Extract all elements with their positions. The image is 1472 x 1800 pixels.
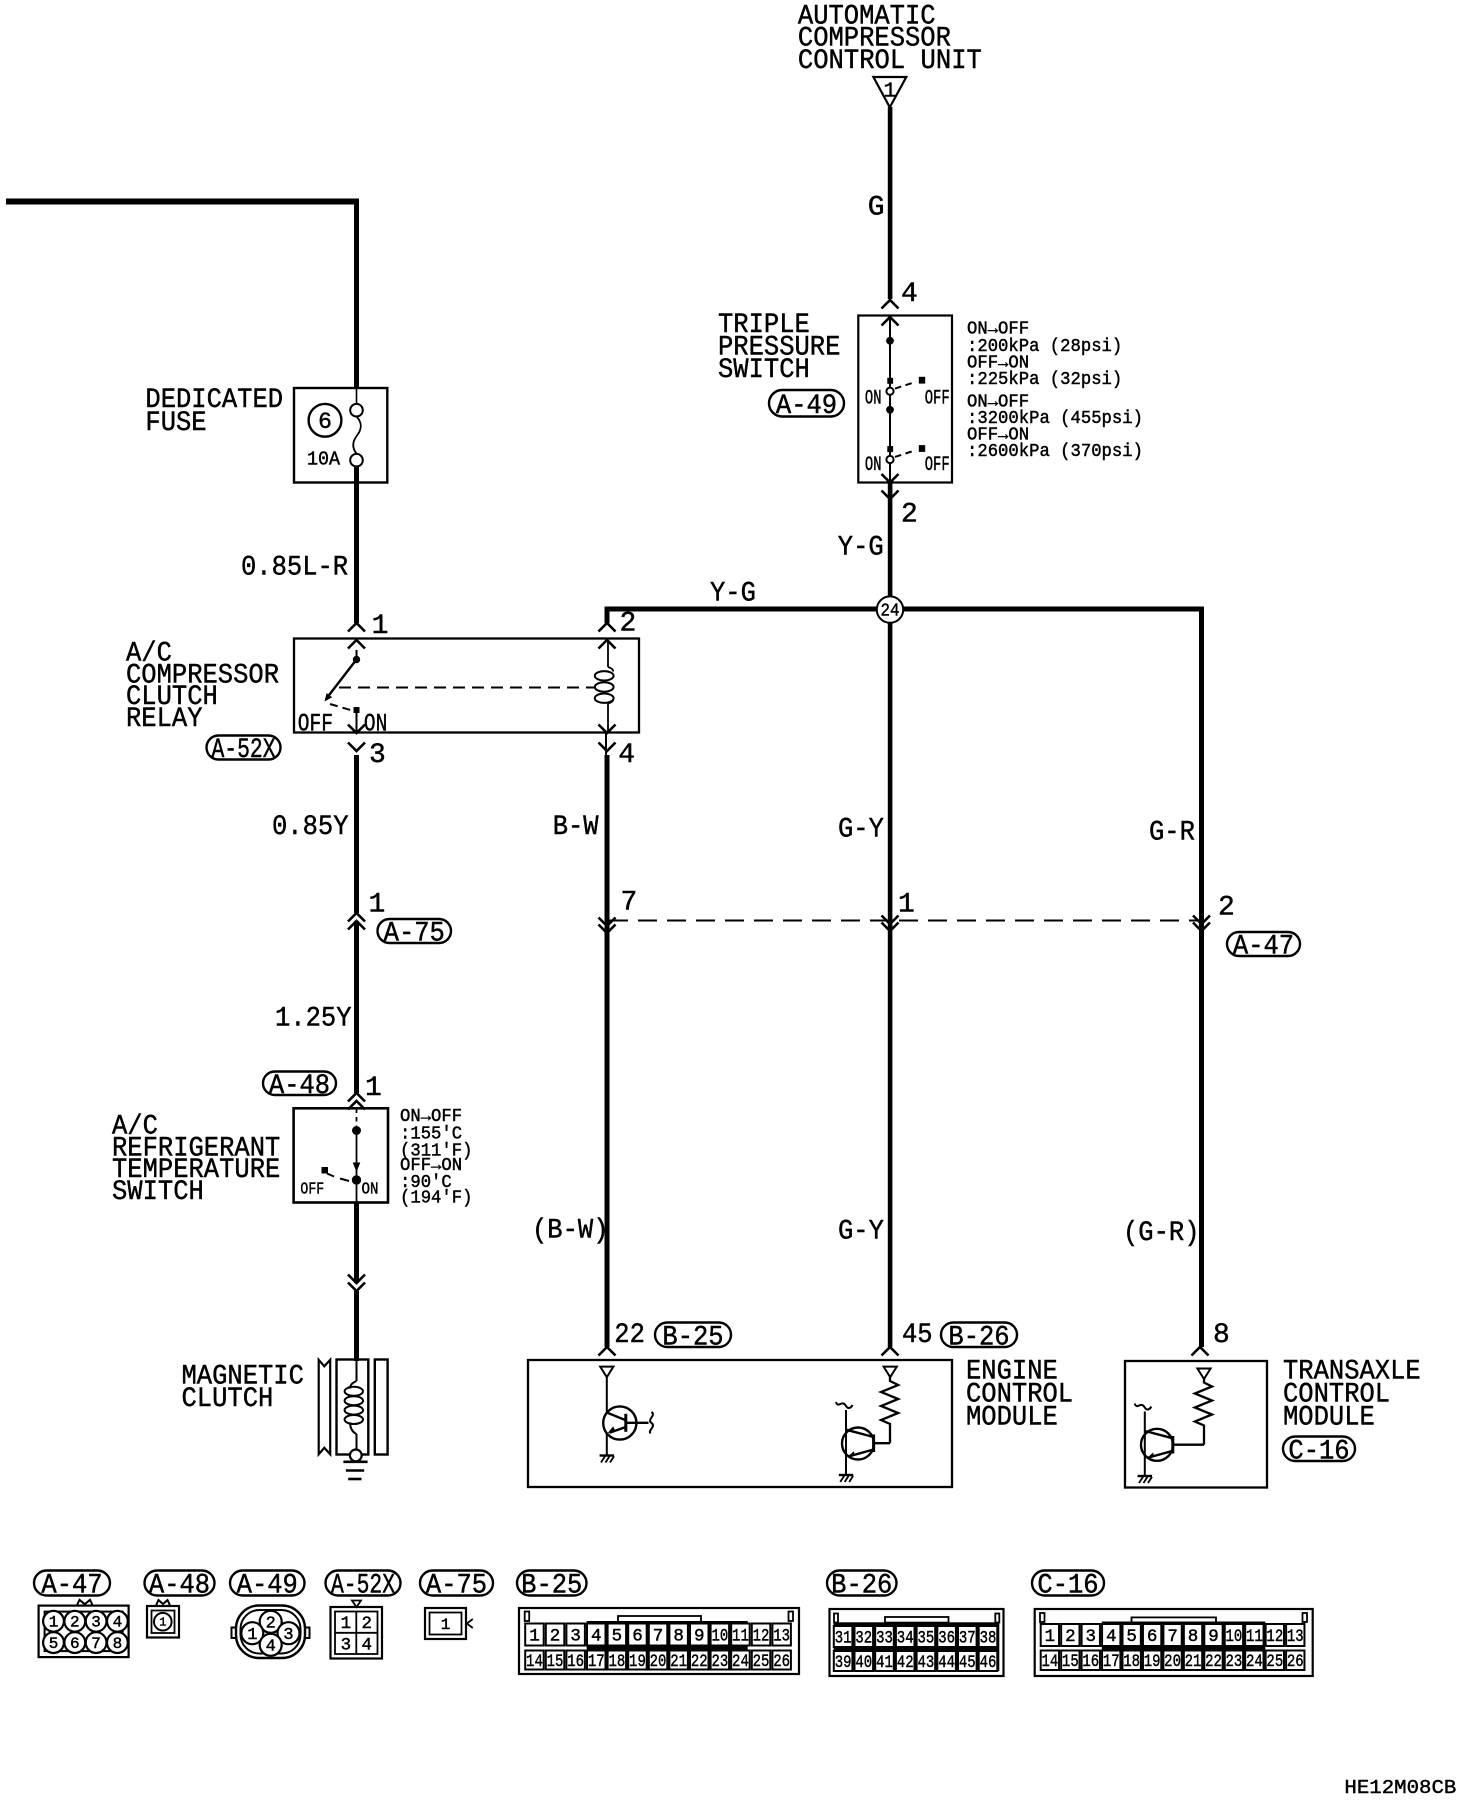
svg-text:26: 26 — [1287, 1652, 1304, 1672]
svg-text:A-47: A-47 — [1233, 932, 1294, 963]
svg-text:45: 45 — [959, 1653, 976, 1673]
svg-text:9: 9 — [694, 1626, 705, 1646]
svg-text:ON: ON — [364, 709, 387, 738]
svg-text:4: 4 — [1106, 1627, 1117, 1647]
svg-text:2: 2 — [70, 1614, 80, 1632]
svg-text:34: 34 — [897, 1628, 914, 1648]
svg-text:Y-G: Y-G — [710, 579, 756, 610]
svg-text:MODULE: MODULE — [966, 1403, 1058, 1434]
svg-text:ON: ON — [865, 387, 882, 410]
svg-text:A-52X: A-52X — [212, 735, 276, 766]
svg-text:13: 13 — [1287, 1627, 1304, 1647]
svg-text:12: 12 — [1266, 1627, 1283, 1647]
svg-text:40: 40 — [855, 1653, 872, 1673]
svg-text:2: 2 — [362, 1614, 373, 1634]
svg-text:18: 18 — [1123, 1652, 1140, 1672]
svg-text:41: 41 — [876, 1653, 893, 1673]
svg-text:32: 32 — [855, 1628, 872, 1648]
svg-text:4: 4 — [901, 279, 918, 310]
svg-text:OFF: OFF — [298, 709, 333, 738]
svg-text:38: 38 — [980, 1628, 997, 1648]
svg-text:21: 21 — [1185, 1652, 1202, 1672]
svg-text:8: 8 — [1213, 1320, 1230, 1351]
svg-text:A-75: A-75 — [384, 919, 445, 950]
svg-text:11: 11 — [1246, 1627, 1263, 1647]
svg-text:22: 22 — [1205, 1652, 1222, 1672]
svg-text:4: 4 — [591, 1626, 602, 1646]
svg-text:A-49: A-49 — [237, 1571, 298, 1602]
svg-text:0.85Y: 0.85Y — [272, 812, 349, 843]
svg-text:23: 23 — [1226, 1652, 1243, 1672]
svg-text:CONTROL UNIT: CONTROL UNIT — [798, 46, 982, 77]
svg-text:6: 6 — [70, 1635, 80, 1653]
svg-text:16: 16 — [567, 1652, 584, 1672]
svg-text:1: 1 — [372, 611, 389, 642]
svg-text:22: 22 — [614, 1320, 645, 1351]
svg-text:RELAY: RELAY — [126, 704, 203, 735]
svg-text:22: 22 — [691, 1652, 708, 1672]
svg-text:13: 13 — [773, 1626, 790, 1646]
svg-text:4: 4 — [362, 1635, 373, 1655]
svg-text:45: 45 — [902, 1320, 933, 1351]
svg-text:17: 17 — [588, 1652, 605, 1672]
svg-text:3: 3 — [283, 1626, 293, 1645]
svg-text:A-47: A-47 — [41, 1571, 102, 1602]
svg-text:7: 7 — [91, 1635, 101, 1653]
svg-text:1: 1 — [369, 890, 386, 921]
svg-text:ON: ON — [362, 1179, 379, 1198]
svg-text:19: 19 — [629, 1652, 646, 1672]
svg-text:16: 16 — [1082, 1652, 1099, 1672]
svg-text:10: 10 — [1226, 1627, 1243, 1647]
svg-text:9: 9 — [1208, 1627, 1219, 1647]
svg-text:OFF: OFF — [925, 387, 950, 410]
svg-text:10: 10 — [711, 1626, 728, 1646]
svg-text:3: 3 — [91, 1614, 101, 1632]
svg-text:C-16: C-16 — [1288, 1437, 1349, 1468]
svg-text::225kPa (32psi): :225kPa (32psi) — [967, 370, 1122, 390]
svg-text:15: 15 — [1062, 1652, 1079, 1672]
svg-text:20: 20 — [650, 1652, 667, 1672]
svg-text:43: 43 — [918, 1653, 935, 1673]
svg-text:G-Y: G-Y — [838, 1217, 884, 1248]
svg-text:2: 2 — [266, 1614, 276, 1633]
svg-text:0.85L-R: 0.85L-R — [241, 553, 348, 584]
svg-text:46: 46 — [980, 1653, 997, 1673]
svg-text:15: 15 — [547, 1652, 564, 1672]
svg-text:5: 5 — [612, 1626, 623, 1646]
svg-text:14: 14 — [526, 1652, 543, 1672]
svg-text:20: 20 — [1164, 1652, 1181, 1672]
svg-text:Y-G: Y-G — [838, 533, 884, 564]
svg-text:14: 14 — [1041, 1652, 1058, 1672]
svg-text:25: 25 — [1266, 1652, 1283, 1672]
svg-text:33: 33 — [876, 1628, 893, 1648]
svg-text:4: 4 — [113, 1614, 123, 1632]
svg-text:42: 42 — [897, 1653, 914, 1673]
svg-text:1: 1 — [1045, 1627, 1056, 1647]
svg-text:25: 25 — [753, 1652, 770, 1672]
svg-text:5: 5 — [1126, 1627, 1137, 1647]
svg-text:6: 6 — [1147, 1627, 1158, 1647]
svg-text:OFF: OFF — [300, 1179, 324, 1198]
svg-text:24: 24 — [881, 602, 900, 622]
svg-text:2: 2 — [901, 500, 918, 531]
svg-text:2: 2 — [550, 1626, 561, 1646]
svg-text::2600kPa (370psi): :2600kPa (370psi) — [967, 442, 1143, 462]
svg-text:2: 2 — [620, 608, 637, 639]
svg-text:MODULE: MODULE — [1283, 1403, 1375, 1434]
svg-text:ON: ON — [865, 454, 882, 477]
svg-text:24: 24 — [1246, 1652, 1263, 1672]
svg-text:B-25: B-25 — [521, 1571, 582, 1602]
svg-text:1: 1 — [441, 1616, 451, 1634]
svg-text:10A: 10A — [307, 448, 340, 470]
svg-text:2: 2 — [1065, 1627, 1076, 1647]
svg-text:3: 3 — [1086, 1627, 1097, 1647]
svg-text:12: 12 — [753, 1626, 770, 1646]
svg-text:19: 19 — [1144, 1652, 1161, 1672]
svg-text:8: 8 — [1188, 1627, 1199, 1647]
svg-text:1.25Y: 1.25Y — [275, 1003, 352, 1034]
svg-text:17: 17 — [1103, 1652, 1120, 1672]
svg-text:36: 36 — [938, 1628, 955, 1648]
svg-text:23: 23 — [711, 1652, 728, 1672]
svg-text:8: 8 — [113, 1635, 123, 1653]
svg-text:CLUTCH: CLUTCH — [182, 1384, 274, 1415]
svg-text:A-52X: A-52X — [331, 1571, 395, 1602]
svg-text:OFF: OFF — [925, 454, 950, 477]
svg-text:8: 8 — [673, 1626, 684, 1646]
svg-text:7: 7 — [653, 1626, 664, 1646]
svg-text:B-26: B-26 — [831, 1571, 892, 1602]
svg-text:SWITCH: SWITCH — [112, 1177, 204, 1208]
svg-text:35: 35 — [918, 1628, 935, 1648]
svg-text:6: 6 — [632, 1626, 643, 1646]
svg-text:(194'F): (194'F) — [400, 1188, 472, 1208]
svg-text:G-R: G-R — [1149, 818, 1195, 849]
svg-text:(B-W): (B-W) — [532, 1215, 609, 1246]
svg-text:2: 2 — [1218, 893, 1235, 924]
svg-text:18: 18 — [608, 1652, 625, 1672]
svg-text:39: 39 — [835, 1653, 852, 1673]
svg-text:B-26: B-26 — [948, 1323, 1009, 1354]
svg-text:A-48: A-48 — [269, 1071, 330, 1102]
svg-text:1: 1 — [898, 890, 915, 921]
svg-text:FUSE: FUSE — [145, 408, 206, 439]
svg-text:4: 4 — [618, 740, 635, 771]
svg-text:7: 7 — [621, 888, 638, 919]
svg-text:1: 1 — [247, 1626, 257, 1645]
svg-text:3: 3 — [369, 740, 386, 771]
svg-text:G-Y: G-Y — [838, 815, 884, 846]
svg-text:31: 31 — [835, 1628, 852, 1648]
svg-text:B-25: B-25 — [662, 1323, 723, 1354]
svg-text:44: 44 — [938, 1653, 955, 1673]
svg-text:A-49: A-49 — [776, 391, 837, 422]
svg-text:HE12M08CB: HE12M08CB — [1344, 1777, 1456, 1799]
svg-text:37: 37 — [959, 1628, 976, 1648]
svg-text:A-75: A-75 — [426, 1571, 487, 1602]
svg-text:B-W: B-W — [553, 812, 599, 843]
svg-text:3: 3 — [341, 1635, 352, 1655]
svg-text:1: 1 — [529, 1626, 540, 1646]
svg-text:1: 1 — [883, 80, 896, 103]
svg-text:C-16: C-16 — [1037, 1571, 1098, 1602]
svg-text:6: 6 — [318, 409, 332, 435]
svg-text:SWITCH: SWITCH — [718, 355, 810, 386]
svg-text:4: 4 — [266, 1637, 276, 1656]
svg-text:5: 5 — [49, 1635, 59, 1653]
svg-text:7: 7 — [1167, 1627, 1178, 1647]
svg-text:1: 1 — [365, 1073, 382, 1104]
svg-text:1: 1 — [159, 1616, 166, 1630]
svg-text:21: 21 — [670, 1652, 687, 1672]
svg-text:11: 11 — [732, 1626, 749, 1646]
svg-text:A-48: A-48 — [149, 1571, 210, 1602]
svg-text:1: 1 — [341, 1614, 352, 1634]
svg-text:26: 26 — [773, 1652, 790, 1672]
svg-text:G: G — [868, 193, 885, 224]
svg-text:(G-R): (G-R) — [1123, 1218, 1200, 1249]
svg-text:3: 3 — [570, 1626, 581, 1646]
svg-text:24: 24 — [732, 1652, 749, 1672]
svg-text:1: 1 — [49, 1614, 59, 1632]
